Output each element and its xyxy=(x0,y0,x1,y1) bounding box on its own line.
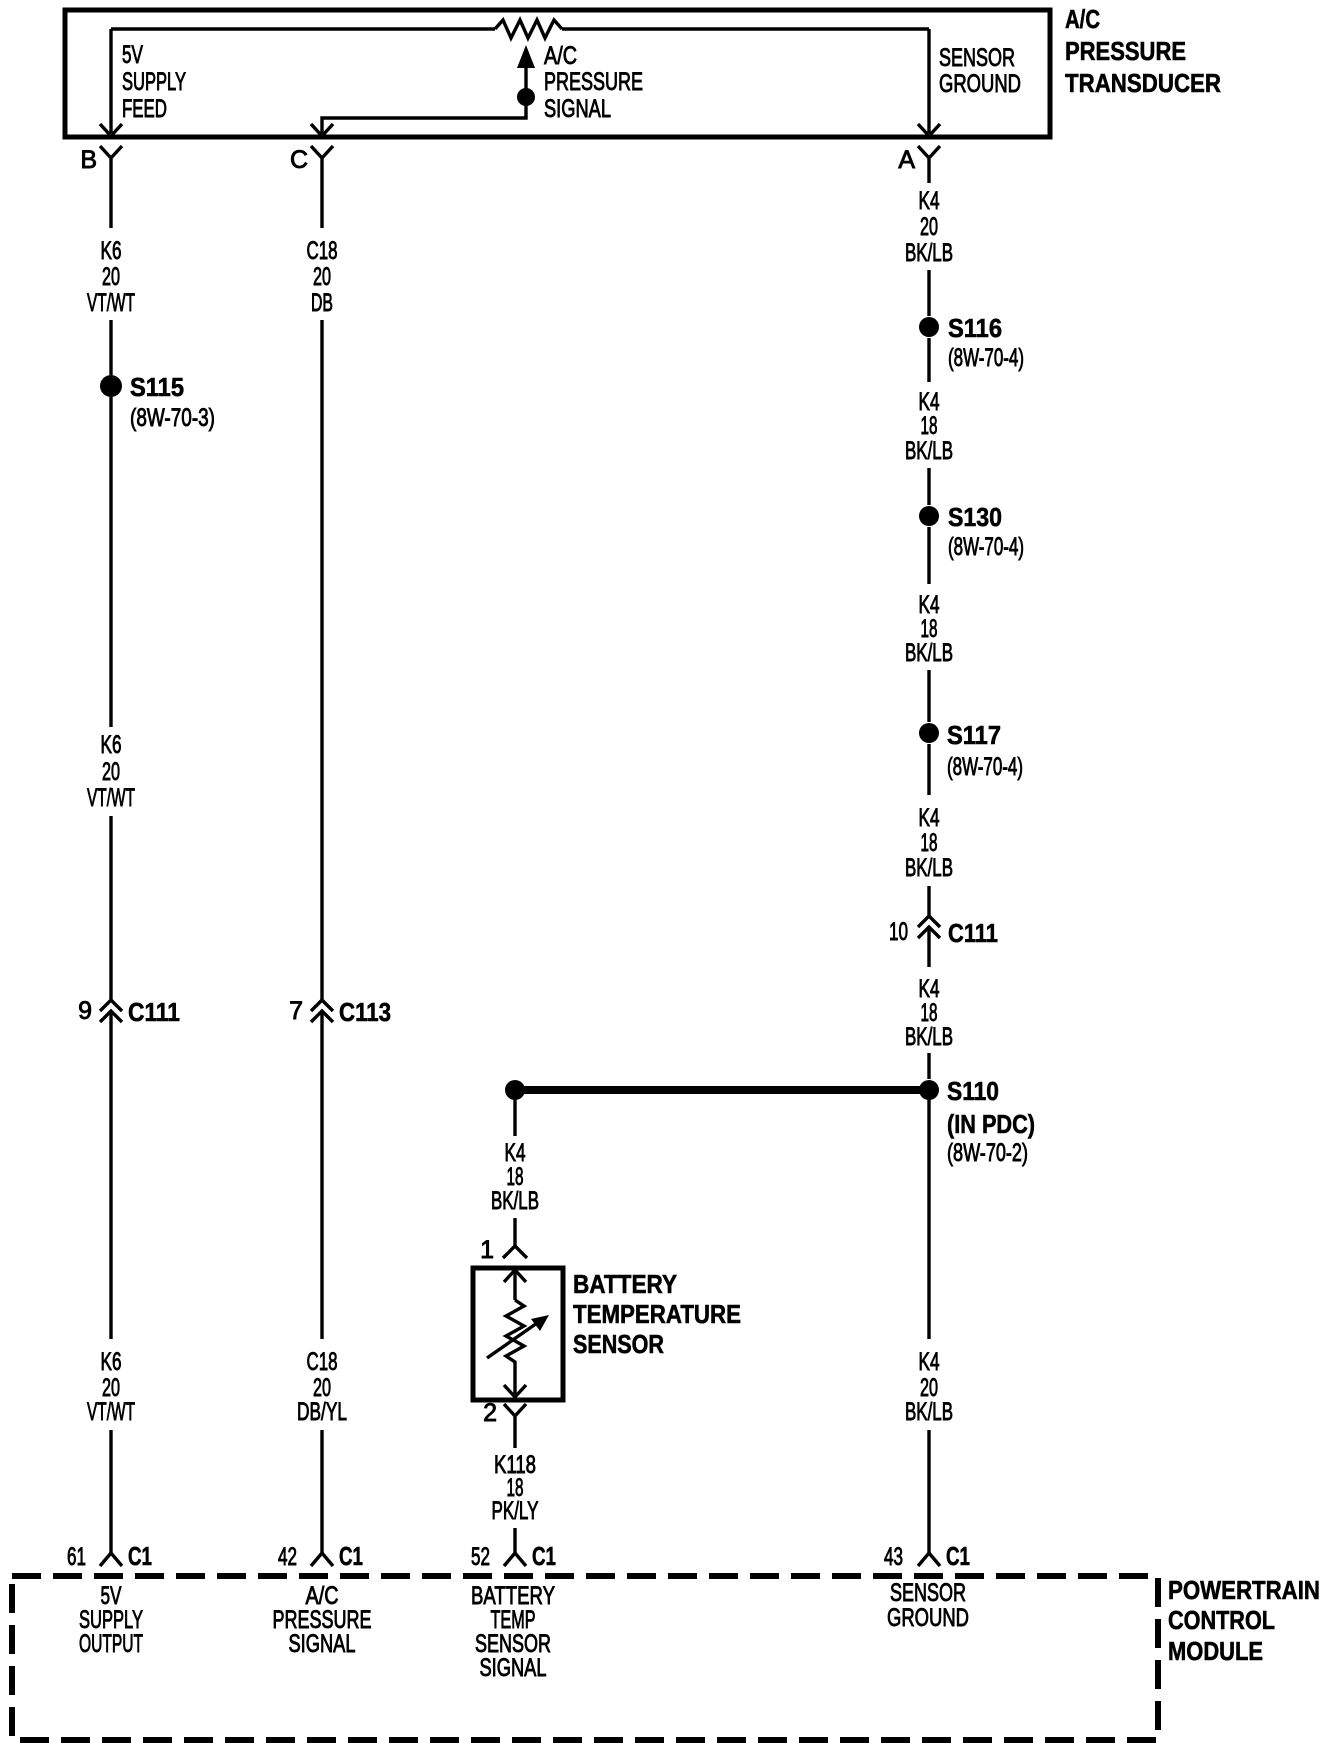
thermistor zigzag xyxy=(506,1300,524,1394)
sensor pin 1 arrow (up) xyxy=(504,1270,526,1300)
splice S110 xyxy=(919,1080,939,1100)
wire A8seg xyxy=(927,886,930,916)
wire A11seg xyxy=(927,1100,930,1339)
svg-text:42: 42 xyxy=(278,1543,297,1571)
sensor pin 2 arrow (down) xyxy=(504,1385,526,1397)
connector C111 pin 9 symbol xyxy=(100,1000,122,1022)
svg-text:PRESSURE: PRESSURE xyxy=(544,68,643,96)
svg-text:10: 10 xyxy=(889,918,908,946)
svg-text:SIGNAL: SIGNAL xyxy=(544,95,611,123)
splice S115 xyxy=(100,375,122,397)
splice S116 xyxy=(919,317,939,337)
connector C111 pin 10 symbol xyxy=(918,916,940,938)
label C18 20 DB xyxy=(307,237,338,317)
svg-text:C1: C1 xyxy=(128,1541,152,1571)
wire A12seg xyxy=(927,1430,930,1553)
label K6 20 VT/WT (top) xyxy=(87,237,135,317)
svg-text:OUTPUT: OUTPUT xyxy=(79,1630,143,1658)
label K118 18 PK/LY xyxy=(492,1451,539,1525)
svg-text:1: 1 xyxy=(480,1236,494,1264)
svg-text:PRESSURE: PRESSURE xyxy=(1065,36,1186,66)
svg-text:A: A xyxy=(898,146,915,174)
svg-text:K6: K6 xyxy=(101,731,122,759)
A/C pressure transducer box xyxy=(65,10,1050,137)
label C18 20 DB/YL xyxy=(297,1348,347,1426)
svg-text:VT/WT: VT/WT xyxy=(87,1398,135,1426)
label 5V SUPPLY OUTPUT xyxy=(79,1582,143,1658)
svg-text:BK/LB: BK/LB xyxy=(905,854,953,882)
splice S117 xyxy=(919,723,939,743)
wiper junction dot xyxy=(517,88,535,106)
svg-text:VT/WT: VT/WT xyxy=(87,289,135,317)
svg-text:C1: C1 xyxy=(946,1541,970,1571)
svg-text:K6: K6 xyxy=(101,237,122,265)
svg-text:S110: S110 xyxy=(947,1076,999,1106)
svg-text:C111: C111 xyxy=(128,997,180,1027)
svg-text:K6: K6 xyxy=(101,1348,122,1376)
arrow at pin B (down) xyxy=(100,124,122,136)
svg-text:DB: DB xyxy=(311,289,333,317)
wire A10seg xyxy=(927,1053,930,1079)
splice S130 xyxy=(919,506,939,526)
svg-text:(8W-70-4): (8W-70-4) xyxy=(947,753,1023,781)
arrow at pin A (down) xyxy=(918,124,940,136)
svg-text:PK/LY: PK/LY xyxy=(492,1497,539,1525)
svg-text:61: 61 xyxy=(67,1543,86,1571)
svg-text:(8W-70-4): (8W-70-4) xyxy=(948,533,1024,561)
wire battery branch 3 xyxy=(513,1432,516,1448)
wire B1 xyxy=(109,172,112,228)
svg-text:BK/LB: BK/LB xyxy=(491,1187,539,1215)
label BATTERY TEMP SENSOR SIGNAL xyxy=(471,1582,555,1682)
label K4 18 BK/LB (3) xyxy=(905,591,953,667)
svg-text:BK/LB: BK/LB xyxy=(905,639,953,667)
svg-text:20: 20 xyxy=(313,263,331,291)
label K4 20 BK/LB (6) xyxy=(905,1348,953,1426)
svg-text:BATTERY: BATTERY xyxy=(573,1269,677,1299)
svg-text:S115: S115 xyxy=(130,372,184,402)
label A/C PRESSURE SIGNAL (PCM) xyxy=(273,1582,372,1658)
svg-text:C1: C1 xyxy=(532,1541,556,1571)
label K4 18 BK/LB (battery) xyxy=(491,1139,539,1215)
svg-text:B: B xyxy=(80,146,97,174)
svg-text:SUPPLY: SUPPLY xyxy=(122,68,186,96)
wire internal sensor ground drop xyxy=(927,29,930,133)
svg-text:(IN PDC): (IN PDC) xyxy=(947,1109,1035,1139)
svg-text:SIGNAL: SIGNAL xyxy=(480,1654,547,1682)
wire internal top horizontal left xyxy=(111,27,495,30)
label A/C PRESSURE SIGNAL xyxy=(544,42,643,123)
wire B4 xyxy=(109,816,112,1000)
label K4 18 BK/LB (5) xyxy=(905,975,953,1051)
resistor (transducer element) xyxy=(495,20,562,38)
svg-text:43: 43 xyxy=(884,1543,903,1571)
svg-text:S116: S116 xyxy=(948,313,1002,343)
pin 1 connector symbol xyxy=(503,1246,527,1258)
wire C2seg xyxy=(320,320,323,1000)
wire battery branch 1 xyxy=(513,1100,516,1136)
connector C113 pin 7 symbol xyxy=(311,1000,333,1022)
wire A4seg xyxy=(927,468,930,505)
pin 61 connector symbol xyxy=(100,1553,122,1566)
svg-text:SIGNAL: SIGNAL xyxy=(289,1630,356,1658)
pin B connector Y xyxy=(100,146,122,172)
wire wiper to pin C xyxy=(322,97,526,133)
powertrain control module box (dashed) xyxy=(12,1576,1158,1740)
label K6 20 VT/WT (bottom) xyxy=(87,1348,135,1426)
wire C1seg xyxy=(320,172,323,228)
wire A2seg xyxy=(927,270,930,316)
svg-text:C113: C113 xyxy=(339,997,391,1027)
label K4 18 BK/LB (4) xyxy=(905,804,953,882)
label K4 20 BK/LB (1) xyxy=(905,187,953,267)
svg-text:SENSOR: SENSOR xyxy=(890,1579,966,1607)
svg-text:18: 18 xyxy=(921,412,938,440)
pin 42 connector symbol xyxy=(311,1553,333,1566)
svg-text:C18: C18 xyxy=(307,237,338,265)
svg-text:9: 9 xyxy=(78,997,92,1025)
pin 52 connector symbol xyxy=(504,1553,526,1566)
thermistor diagonal arrow xyxy=(487,1321,540,1358)
svg-text:GROUND: GROUND xyxy=(939,70,1021,98)
wire internal 5V supply feed drop xyxy=(109,29,112,133)
svg-text:7: 7 xyxy=(289,997,303,1025)
wire A3seg xyxy=(927,338,930,382)
svg-text:2: 2 xyxy=(483,1399,497,1427)
wire battery branch 4 xyxy=(513,1528,516,1553)
svg-text:TEMPERATURE: TEMPERATURE xyxy=(573,1299,741,1329)
svg-text:SENSOR: SENSOR xyxy=(939,44,1015,72)
svg-text:VT/WT: VT/WT xyxy=(87,784,135,812)
svg-text:BK/LB: BK/LB xyxy=(905,1398,953,1426)
svg-text:C1: C1 xyxy=(339,1541,363,1571)
wire battery branch 2 xyxy=(513,1218,516,1246)
svg-text:(8W-70-4): (8W-70-4) xyxy=(948,344,1024,372)
thermistor arrowhead xyxy=(531,1315,549,1331)
wire A5seg xyxy=(927,527,930,584)
wire S110 branch horizontal xyxy=(515,1086,929,1094)
pin C connector Y xyxy=(311,146,333,172)
junction dot battery branch xyxy=(505,1080,525,1100)
wire C3seg xyxy=(320,1011,323,1339)
wire C4seg xyxy=(320,1430,323,1553)
arrow at pin C (down) xyxy=(311,124,333,136)
svg-text:20: 20 xyxy=(102,758,120,786)
wire A6seg xyxy=(927,670,930,722)
svg-text:DB/YL: DB/YL xyxy=(297,1398,347,1426)
svg-text:K4: K4 xyxy=(919,804,940,832)
svg-text:S117: S117 xyxy=(947,720,1001,750)
wire A1seg xyxy=(927,175,930,183)
label K4 18 BK/LB (2) xyxy=(905,388,953,465)
wiper arrow (pressure signal) xyxy=(517,45,535,68)
label BATTERY TEMPERATURE SENSOR xyxy=(573,1269,741,1359)
svg-text:(8W-70-2): (8W-70-2) xyxy=(947,1139,1028,1167)
svg-text:C: C xyxy=(290,146,308,174)
svg-text:52: 52 xyxy=(471,1543,490,1571)
wiper stem xyxy=(524,66,527,97)
svg-text:K4: K4 xyxy=(919,1348,940,1376)
svg-text:GROUND: GROUND xyxy=(887,1604,969,1632)
label SENSOR GROUND xyxy=(939,44,1021,98)
battery temperature sensor box xyxy=(473,1268,563,1400)
svg-text:SENSOR: SENSOR xyxy=(573,1329,664,1359)
svg-text:A/C: A/C xyxy=(544,42,577,70)
svg-text:BK/LB: BK/LB xyxy=(905,239,953,267)
svg-text:S130: S130 xyxy=(948,502,1002,532)
wire A7seg xyxy=(927,744,930,795)
svg-text:C111: C111 xyxy=(948,918,998,948)
wire A9seg xyxy=(927,927,930,967)
svg-text:FEED: FEED xyxy=(122,95,167,123)
svg-text:K4: K4 xyxy=(919,187,940,215)
wire B6 xyxy=(109,1430,112,1553)
label K6 20 VT/WT (middle) xyxy=(87,731,135,812)
svg-text:(8W-70-3): (8W-70-3) xyxy=(130,404,215,432)
wire B2 xyxy=(109,320,112,375)
svg-text:A/C: A/C xyxy=(1065,4,1100,34)
title POWERTRAIN CONTROL MODULE xyxy=(1168,1575,1320,1666)
svg-text:TRANSDUCER: TRANSDUCER xyxy=(1065,68,1221,98)
wire B3 xyxy=(109,397,112,727)
label SENSOR GROUND (PCM) xyxy=(887,1579,969,1632)
svg-text:5V: 5V xyxy=(122,41,143,69)
svg-text:18: 18 xyxy=(921,829,938,857)
svg-text:MODULE: MODULE xyxy=(1168,1636,1263,1666)
label 5V SUPPLY FEED xyxy=(122,41,186,123)
pin 43 connector symbol xyxy=(918,1553,940,1566)
svg-text:BK/LB: BK/LB xyxy=(905,437,953,465)
svg-text:20: 20 xyxy=(102,263,120,291)
pin 2 connector Y xyxy=(504,1404,526,1432)
svg-text:C18: C18 xyxy=(307,1348,338,1376)
wire B5 xyxy=(109,1011,112,1339)
svg-text:20: 20 xyxy=(920,213,938,241)
svg-text:BK/LB: BK/LB xyxy=(905,1023,953,1051)
title A/C PRESSURE TRANSDUCER xyxy=(1065,4,1221,98)
svg-text:CONTROL: CONTROL xyxy=(1168,1605,1275,1635)
wire internal top horizontal right xyxy=(562,27,929,30)
svg-text:POWERTRAIN: POWERTRAIN xyxy=(1168,1575,1320,1605)
pin A connector Y xyxy=(918,146,940,175)
